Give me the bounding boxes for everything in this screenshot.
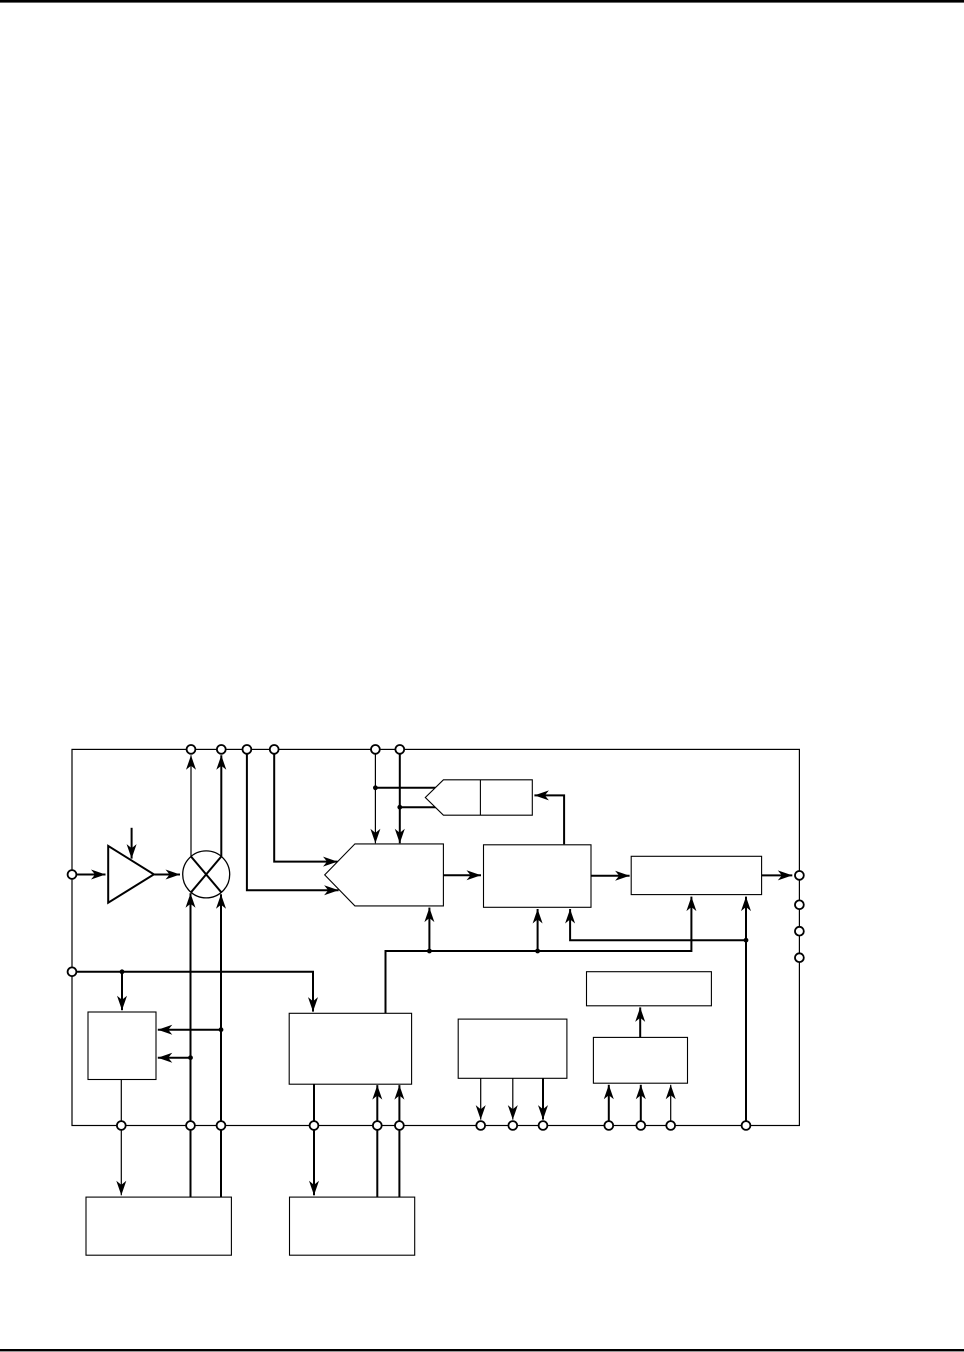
top page rule bbox=[0, 0, 964, 3]
rect3 block bbox=[587, 972, 712, 1006]
wire: rect7 down to bottom pin (right) bbox=[542, 1078, 544, 1119]
pin circle bottom 9 bbox=[539, 1121, 548, 1130]
junction dot A bbox=[373, 785, 378, 790]
wire: branch to small pentagon lower input bbox=[400, 806, 438, 808]
pin circle right 2 bbox=[795, 900, 804, 909]
wire: bottom pin13 up into rect2 bottom right bbox=[745, 897, 747, 1126]
pin circle top 3 bbox=[243, 745, 252, 754]
wire: branch left into control block upper input bbox=[158, 1029, 221, 1031]
rect9 bottom-right block bbox=[290, 1197, 415, 1255]
wire: rect7 down to bottom pin (left, thin) bbox=[480, 1078, 482, 1119]
wire: bottom pin up into rect6 (middle) bbox=[640, 1085, 642, 1126]
pin circle bottom 13 bbox=[742, 1121, 751, 1130]
pin circle right 4 bbox=[795, 953, 804, 962]
wire: branch down into control block top bbox=[121, 972, 123, 1010]
wire: branch to small pentagon upper input bbox=[375, 787, 438, 789]
pin circle bottom 8 bbox=[508, 1121, 517, 1130]
pin circle bottom 3 bbox=[217, 1121, 226, 1130]
rect1 block bbox=[484, 845, 592, 908]
wire: big lower block down through pin into bottom-right block bbox=[313, 1084, 315, 1195]
junction dot H bbox=[188, 1055, 193, 1060]
small pentagon divider bbox=[479, 780, 481, 815]
pin circle top 2 bbox=[217, 745, 226, 754]
pin circle top 1 bbox=[187, 745, 196, 754]
rect4 big lower block bbox=[289, 1013, 411, 1084]
wire: branch left and up into rect1 bottom right bbox=[570, 909, 746, 940]
pin circle bottom 12 bbox=[666, 1121, 675, 1130]
pin circle bottom 11 bbox=[636, 1121, 645, 1130]
pin circle bottom 5 bbox=[373, 1121, 382, 1130]
wire: bottom pin up into rect6 (right, thin) bbox=[670, 1085, 672, 1126]
rect5 control block bbox=[88, 1012, 156, 1080]
wire: branch left into control block lower input bbox=[158, 1057, 191, 1059]
junction dot F bbox=[120, 969, 125, 974]
wire: amplifier output into mixer bbox=[154, 874, 180, 876]
wire: bottom pin up into rect6 (left) bbox=[608, 1085, 610, 1126]
wire: pin2 to mixer (arrow up into pin2) bbox=[220, 755, 222, 856]
wire: big lower block up across and up into rect2 bottom bbox=[386, 897, 692, 1014]
wire: bottom-right block up into big lower block (left) bbox=[376, 1085, 378, 1197]
pin circle bottom 7 bbox=[476, 1121, 485, 1130]
small pentagon block bbox=[425, 780, 532, 815]
junction dot B bbox=[397, 805, 402, 810]
rect8 bottom-left block bbox=[86, 1197, 231, 1255]
pin circle right 3 bbox=[795, 927, 804, 936]
wire: rect6 up into rect3 bbox=[639, 1007, 641, 1037]
wire: counter block up and left into small pentagon right edge bbox=[534, 795, 564, 844]
wire: big pentagon output into rect1 bbox=[443, 874, 481, 876]
wire: left pin2 across and down into big lower block top bbox=[76, 972, 313, 1012]
mixer circle bbox=[183, 851, 230, 898]
wire: pin1 to mixer (thin, arrow up into pin1) bbox=[190, 755, 192, 856]
rect2 block bbox=[631, 856, 761, 894]
pin circle bottom 4 bbox=[310, 1121, 319, 1130]
wire: branch up into rect1 bottom left bbox=[537, 909, 539, 951]
wire: gain stub arrow into amplifier top bbox=[131, 828, 133, 859]
pin circle left 2 bbox=[68, 967, 77, 976]
wire: left pin into amplifier bbox=[76, 874, 105, 876]
pin circle left 1 bbox=[68, 870, 77, 879]
wire: pin3 down and right into pentagon lower input bbox=[247, 754, 339, 890]
wire: rect1 output into rect2 bbox=[591, 875, 630, 877]
junction dot C bbox=[427, 949, 432, 954]
wire: from bottom block up into mixer bottom-left bbox=[190, 893, 192, 1197]
junction dot G bbox=[219, 1027, 224, 1032]
wire: branch up into big pentagon bottom bbox=[428, 908, 430, 951]
wire: control block down through pin to bottom-left block (thin) bbox=[120, 1080, 122, 1196]
wire: rect7 down to bottom pin (middle, thin) bbox=[512, 1078, 514, 1119]
wire: bottom-right block up into big lower block (right) bbox=[398, 1085, 400, 1197]
wire: pin4 down and right into pentagon upper input bbox=[274, 754, 337, 862]
pin circle bottom 6 bbox=[395, 1121, 404, 1130]
rect7 block bbox=[458, 1019, 567, 1078]
junction dot E bbox=[744, 938, 749, 943]
junction dot D bbox=[535, 949, 540, 954]
wire: pin5 down into big pentagon top (thin) bbox=[374, 754, 376, 843]
wire: from bottom block up into mixer bottom-right bbox=[220, 894, 222, 1197]
pin circle top 5 bbox=[371, 745, 380, 754]
wire: rect2 output to right pin bbox=[762, 874, 793, 876]
pin circle right 1 bbox=[795, 871, 804, 880]
pin circle top 4 bbox=[270, 745, 279, 754]
pin circle bottom 2 bbox=[186, 1121, 195, 1130]
pin circle bottom 10 bbox=[604, 1121, 613, 1130]
bottom page rule bbox=[0, 1349, 964, 1351]
rect6 block bbox=[593, 1037, 687, 1083]
pin circle bottom 1 bbox=[117, 1121, 126, 1130]
amplifier triangle bbox=[108, 846, 154, 903]
wire: pin6 down into big pentagon top bbox=[399, 754, 401, 843]
outer IC boundary box bbox=[72, 749, 799, 1125]
mixer X bbox=[191, 857, 221, 893]
big pentagon block bbox=[325, 844, 444, 906]
pin circle top 6 bbox=[395, 745, 404, 754]
